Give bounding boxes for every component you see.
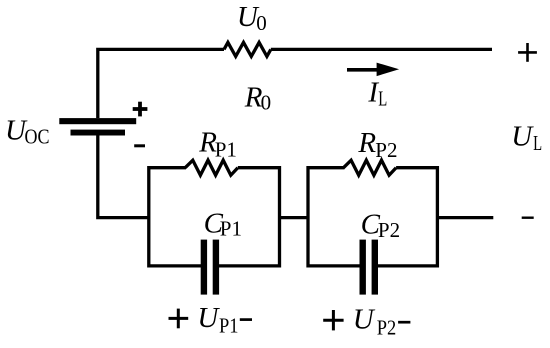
svg-text:0: 0 — [261, 90, 272, 114]
svg-text:L: L — [533, 131, 542, 155]
svg-text:L: L — [378, 87, 387, 111]
svg-text:U: U — [511, 121, 534, 153]
svg-text:U: U — [197, 302, 220, 334]
svg-text:P1: P1 — [219, 313, 239, 337]
svg-text:P1: P1 — [215, 138, 237, 162]
svg-text:R: R — [357, 127, 376, 159]
svg-text:P2: P2 — [375, 138, 397, 162]
svg-text:P1: P1 — [220, 217, 242, 241]
svg-text:OC: OC — [25, 125, 50, 149]
svg-text:0: 0 — [256, 11, 267, 35]
svg-text:U: U — [353, 304, 376, 336]
svg-text:P2: P2 — [378, 218, 400, 242]
svg-text:P2: P2 — [377, 315, 397, 339]
